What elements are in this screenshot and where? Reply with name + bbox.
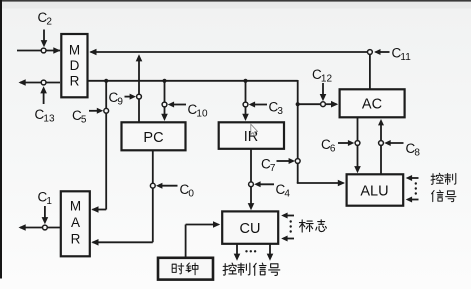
svg-text:ALU: ALU [360, 184, 388, 200]
label control-signal bottom [223, 263, 280, 275]
label C11 [392, 46, 412, 64]
node C3 gate [243, 102, 248, 107]
svg-text:4: 4 [284, 189, 290, 200]
label C7 [261, 157, 276, 175]
wire MAR output left [19, 224, 61, 231]
svg-text:R: R [70, 74, 80, 89]
control line C4 [254, 181, 274, 187]
junction at C10 branch [162, 79, 166, 83]
node C7 gate [295, 159, 300, 164]
svg-text:CU: CU [240, 221, 261, 237]
wire AC to ALU [354, 118, 361, 174]
svg-text:R: R [71, 232, 81, 247]
register PC [122, 122, 186, 150]
wire CU flag input 2 [281, 236, 294, 242]
svg-text:8: 8 [414, 148, 420, 159]
svg-text:7: 7 [270, 163, 276, 174]
control line C12 [320, 83, 327, 101]
top edge line [0, 0, 471, 2]
svg-text:PC: PC [143, 130, 163, 146]
control line C10 [168, 102, 186, 108]
wire bus to AC [298, 101, 339, 108]
label C10 [188, 102, 208, 120]
label C0 [180, 182, 195, 200]
wire CU output 1 [234, 244, 241, 261]
control line C3 [249, 102, 267, 108]
ellipsis ALU controls [415, 182, 417, 194]
svg-text:2: 2 [46, 17, 52, 28]
svg-text:D: D [70, 58, 80, 73]
svg-text:AC: AC [362, 97, 382, 113]
wire MDR output left [19, 79, 61, 86]
control line C11 [374, 49, 389, 55]
wire PC to top bus [136, 54, 143, 121]
ellipsis CU outputs [245, 250, 256, 252]
control line C1 [42, 206, 49, 224]
control unit CU [222, 211, 278, 243]
svg-text:9: 9 [117, 97, 123, 108]
wire CU flag input 1 [281, 213, 294, 219]
control line C8 [384, 140, 403, 146]
wire ALU control input 1 [406, 175, 419, 181]
node C2 gate [41, 48, 46, 53]
wire bus to MAR [91, 81, 106, 213]
svg-text:A: A [71, 215, 80, 230]
svg-text:5: 5 [81, 115, 87, 126]
junction at C3 branch [243, 79, 247, 83]
clock box [158, 258, 213, 280]
svg-text:12: 12 [321, 74, 333, 85]
svg-text:M: M [70, 199, 81, 214]
node C8 gate [379, 141, 384, 146]
junction at AC branch [296, 102, 300, 106]
svg-text:11: 11 [400, 52, 411, 63]
label C13 [35, 107, 55, 125]
node C13 gate [41, 80, 46, 85]
label control-signal right [431, 173, 456, 201]
svg-text:0: 0 [188, 189, 194, 200]
svg-text:1: 1 [46, 196, 52, 207]
node C1 gate [43, 225, 48, 230]
control line C7 [277, 158, 296, 164]
label flag [299, 220, 326, 232]
junction at C5 branch [104, 79, 108, 83]
svg-text:13: 13 [43, 114, 55, 125]
label C12 [312, 67, 332, 85]
label C5 [72, 108, 87, 126]
label C8 [406, 141, 421, 159]
wire top bus AC to MDR [89, 49, 370, 89]
node C10 gate [162, 102, 167, 107]
control line C9 [125, 94, 137, 100]
label C6 [321, 137, 336, 155]
svg-text:6: 6 [330, 144, 336, 155]
label C4 [276, 182, 291, 200]
mouse cursor [251, 124, 258, 136]
node C6 gate [355, 141, 360, 146]
svg-text:3: 3 [277, 106, 283, 117]
wire bus to IR [242, 81, 249, 121]
register AC [340, 89, 405, 117]
control line C13 [40, 86, 47, 104]
svg-text:10: 10 [196, 109, 208, 120]
control line C5 [89, 108, 103, 114]
wire CU output 2 [267, 244, 274, 261]
wire bus to PC [161, 81, 168, 121]
label C9 [109, 90, 124, 108]
wire MDR right bus [89, 80, 346, 186]
register MAR [61, 191, 90, 256]
label C3 [269, 100, 284, 118]
left edge bar [0, 0, 2, 279]
node C0 gate [150, 183, 155, 188]
ellipsis CU flags [290, 220, 292, 232]
register MDR [61, 34, 87, 97]
control line C2 [41, 30, 48, 48]
wire ALU control input 2 [406, 197, 419, 203]
wire PC to MAR [91, 151, 153, 246]
node C5 gate [104, 108, 109, 113]
node C9 gate [137, 94, 142, 99]
node C4 gate [249, 182, 254, 187]
wire clock to CU [186, 221, 221, 257]
ALU block [347, 174, 404, 205]
node C12 gate [321, 102, 326, 107]
node C11 gate [368, 50, 373, 55]
label C2 [38, 10, 53, 28]
label C1 [38, 190, 53, 208]
control line C6 [338, 140, 354, 146]
wire IR to CU [248, 149, 255, 211]
svg-text:M: M [69, 43, 80, 58]
wire ALU to AC [378, 119, 384, 174]
control line C0 [156, 183, 178, 189]
register IR [219, 122, 284, 149]
wire bus input to MDR [17, 47, 61, 54]
